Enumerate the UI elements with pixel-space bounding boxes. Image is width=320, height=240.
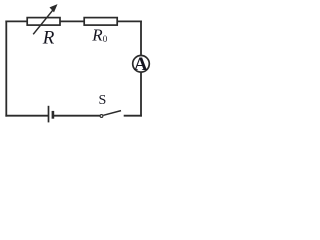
svg-text:R: R	[91, 25, 103, 44]
svg-text:S: S	[99, 93, 107, 108]
svg-text:0: 0	[103, 34, 108, 44]
svg-text:R: R	[42, 28, 55, 49]
svg-text:A: A	[134, 54, 148, 75]
